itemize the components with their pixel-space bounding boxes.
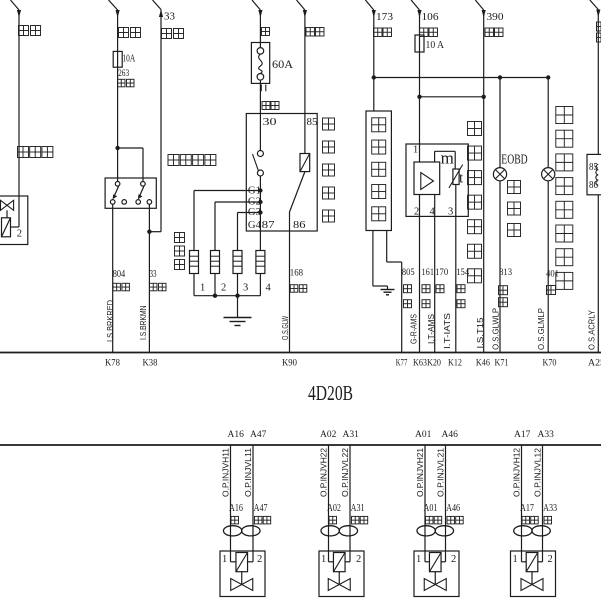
wire to MIL lamp — [547, 78, 549, 168]
svg-text:K38: K38 — [143, 359, 158, 369]
svg-text:A33: A33 — [543, 503, 557, 514]
svg-text:m: m — [441, 149, 454, 168]
svg-text:10A: 10A — [122, 54, 135, 65]
injector 2 solenoid — [333, 553, 345, 572]
label 红蓝 — [119, 28, 141, 38]
svg-text:170: 170 — [435, 268, 448, 278]
injector 1 solenoid — [236, 553, 248, 572]
valve solenoid actuator — [2, 218, 11, 237]
label 106 — [422, 11, 440, 23]
wire 黑黄 to relay coil 85 — [297, 0, 308, 154]
wire 390 绿黄 to K46 — [475, 0, 486, 353]
svg-text:K77: K77 — [396, 359, 408, 369]
labels 85 86 — [589, 162, 598, 191]
svg-text:K90: K90 — [282, 359, 297, 369]
label EOBD — [501, 153, 527, 168]
wire switch to G-junctions and 87 — [259, 176, 261, 251]
sensor pin labels 2 4 3 — [414, 207, 453, 218]
ground for separator — [381, 286, 395, 295]
wire 173 黑黄 — [365, 0, 376, 111]
clipped wire label — [597, 22, 601, 42]
pin label A33 with colour — [543, 503, 557, 524]
twisted pair symbol — [514, 526, 551, 536]
svg-text:A25: A25 — [588, 359, 601, 369]
svg-text:A47: A47 — [250, 430, 267, 440]
twisted pair symbol — [223, 526, 260, 536]
svg-text:2: 2 — [356, 554, 361, 565]
svg-text:G-R-AMS: G-R-AMS — [410, 314, 419, 344]
relay switch contacts 30-87 — [257, 151, 263, 177]
injector 2 box — [319, 551, 364, 597]
svg-text:A01: A01 — [415, 430, 432, 440]
ground for glow plugs — [224, 296, 252, 326]
svg-text:87: 87 — [262, 219, 276, 231]
label 蓝白 — [420, 28, 438, 37]
svg-text:3: 3 — [448, 207, 453, 218]
svg-text:804: 804 — [113, 268, 126, 280]
node G3 branch to glow plug 3 — [238, 210, 263, 250]
lamp supply bus — [372, 75, 551, 79]
pin label A17 with colour — [520, 503, 538, 524]
label 168 红蓝 — [290, 268, 307, 292]
wire to EOBD lamp — [499, 78, 501, 168]
label 10A — [122, 54, 135, 65]
ECU connector rail — [0, 352, 601, 354]
injector 1 wire low side A47 — [248, 445, 253, 562]
label 33 — [164, 11, 176, 23]
label 10 A — [426, 39, 445, 51]
svg-text:2: 2 — [17, 229, 22, 240]
label 170 红 — [435, 268, 448, 293]
injector 4 box — [511, 551, 556, 597]
svg-text:K70: K70 — [543, 359, 557, 369]
pin label A47 with colour — [254, 503, 271, 524]
brake switch 制动开关 box — [105, 178, 156, 208]
injector 4 wire low side A33 — [538, 445, 543, 562]
wire fuse to brake switch — [117, 67, 119, 181]
signal label O.P.INJVH22 — [320, 447, 329, 497]
label 红 — [262, 28, 270, 36]
injector 3 pin labels 1 2 — [416, 554, 456, 565]
svg-text:O.P.INJVL11: O.P.INJVL11 — [244, 447, 253, 497]
svg-text:390: 390 — [487, 11, 505, 23]
pin label 2 — [17, 229, 22, 240]
pin label A46 with colour — [446, 503, 463, 524]
air mass sensor 空气质量传感器 box — [406, 144, 468, 216]
svg-text:K46: K46 — [476, 359, 490, 369]
svg-text:106: 106 — [422, 11, 440, 23]
injector 4 valve — [521, 572, 543, 591]
svg-text:A31: A31 — [343, 430, 360, 440]
svg-text:33: 33 — [164, 11, 176, 23]
svg-text:154: 154 — [456, 268, 469, 278]
svg-text:A33: A33 — [538, 430, 555, 440]
svg-text:2: 2 — [221, 283, 226, 294]
brake switch blade 1 — [113, 186, 119, 199]
relay coil 85-86 — [300, 154, 310, 172]
svg-text:O.P.INJVL22: O.P.INJVL22 — [341, 447, 350, 497]
svg-text:O.P.INJVL12: O.P.INJVL12 — [534, 447, 543, 497]
svg-text:1: 1 — [513, 554, 518, 565]
svg-text:K20: K20 — [427, 359, 441, 369]
svg-text:805: 805 — [402, 268, 415, 278]
svg-text:2: 2 — [414, 207, 419, 218]
injector 1 valve — [231, 572, 253, 591]
sensor internal link — [435, 151, 456, 169]
sensor wire pin 3 to K12 — [455, 185, 457, 353]
connector pin labels A16..A33 — [228, 430, 555, 440]
svg-text:A31: A31 — [351, 503, 365, 514]
svg-text:K63: K63 — [413, 359, 427, 369]
injector 4 wire high side A17 — [522, 445, 527, 562]
sensor hot-film element m — [441, 149, 454, 168]
injector 1 box — [220, 551, 265, 597]
svg-text:O.S.GLW: O.S.GLW — [281, 316, 290, 340]
svg-text:O.P.INJVH21: O.P.INJVH21 — [416, 447, 425, 497]
svg-text:A16: A16 — [228, 430, 245, 440]
signal label I.T-AMS — [427, 314, 436, 344]
svg-text:1: 1 — [416, 554, 421, 565]
signal label I.T-IATS — [443, 313, 452, 349]
svg-text:263: 263 — [118, 68, 130, 78]
svg-text:K78: K78 — [105, 359, 120, 369]
svg-text:A17: A17 — [514, 430, 531, 440]
separator signal wire to K77 — [387, 231, 402, 353]
junction to second brake-switch contact — [115, 146, 143, 182]
brake switch contacts — [110, 182, 151, 205]
glow plug 2 — [211, 251, 220, 296]
signal label O.S.ACRLY — [588, 309, 597, 350]
label 87 — [262, 219, 276, 231]
sensor pin label 1 — [413, 145, 418, 156]
label 红黑 — [162, 29, 184, 39]
svg-text:2: 2 — [257, 554, 262, 565]
sensor wire pin 2 to K63 — [419, 195, 421, 353]
svg-text:60A: 60A — [272, 57, 293, 71]
svg-text:O.S.ACRLY: O.S.ACRLY — [588, 309, 597, 350]
sensor wire pin 4 to K20 — [434, 195, 436, 353]
wire at right edge — [590, 0, 601, 154]
svg-text:1: 1 — [200, 283, 205, 294]
wire coil to terminal 86 and K90 — [290, 172, 305, 353]
signal label I.S.BRKMN — [139, 305, 148, 340]
signal label O.P.INJVL11 — [244, 447, 253, 497]
svg-text:1: 1 — [222, 554, 227, 565]
label 33 红黑 — [150, 268, 167, 291]
svg-text:4: 4 — [266, 283, 272, 294]
A/C relay coil box 85 86 — [587, 154, 601, 194]
node G1 branch to glow plug 1 — [194, 188, 263, 250]
fuse 10A 263 — [113, 51, 122, 67]
injector 3 wire high side A01 — [425, 445, 429, 562]
svg-text:A46: A46 — [446, 503, 460, 514]
node G2 branch to glow plug 2 — [215, 200, 263, 251]
svg-text:O.S.GLMLP: O.S.GLMLP — [537, 308, 546, 350]
label 黑红 — [262, 102, 279, 110]
signal label O.S.GLW — [281, 316, 290, 340]
wire fuse to sensor pin 1 — [419, 52, 421, 162]
svg-text:K12: K12 — [448, 359, 462, 369]
pin label A31 with colour — [351, 503, 368, 524]
label 154 绿红 — [456, 268, 469, 308]
label 805 棕白 — [402, 268, 415, 308]
injector 2 valve — [328, 572, 350, 591]
sensor temperature resistor t — [449, 165, 464, 189]
svg-text:A46: A46 — [442, 430, 459, 440]
pin marks 11 — [261, 85, 266, 92]
connector pin labels K78..A25 — [105, 359, 601, 369]
fuel metering valve 油量阀 box — [0, 196, 28, 245]
svg-text:168: 168 — [290, 268, 304, 278]
svg-text:O.P.INJVL21: O.P.INJVL21 — [437, 447, 446, 497]
injector 4 solenoid — [526, 553, 538, 572]
svg-text:86: 86 — [293, 219, 306, 231]
svg-text:33: 33 — [150, 268, 157, 280]
label 401 蓝 — [546, 270, 559, 295]
svg-text:173: 173 — [376, 11, 394, 23]
injector 3 wire low side A46 — [441, 445, 445, 562]
signal label O.P.INJVH21 — [416, 447, 425, 497]
relay coil bumps — [596, 165, 598, 186]
label 60A — [272, 57, 293, 71]
label 油水分离器 — [372, 118, 386, 221]
label 预热继电器 — [323, 118, 335, 222]
signal label O.S.GLWLP — [491, 308, 500, 350]
label 指示灯 — [508, 181, 521, 237]
label 绿黄 — [485, 28, 503, 37]
glow plug numbers 1 2 3 4 — [200, 283, 272, 294]
svg-text:O.P.INJVH22: O.P.INJVH22 — [320, 447, 329, 497]
svg-text:K71: K71 — [495, 359, 509, 369]
svg-text:30: 30 — [263, 116, 278, 128]
svg-text:O.P.INJVH11: O.P.INJVH11 — [222, 447, 231, 497]
pin label A16 with colour — [229, 503, 243, 524]
svg-text:3: 3 — [243, 283, 248, 294]
svg-text:2: 2 — [548, 554, 553, 565]
relay switch blade — [253, 154, 259, 171]
label 制动开关 — [168, 155, 216, 166]
wire into valve pin 2 — [11, 196, 20, 227]
signal label O.S.GLMLP — [537, 308, 546, 350]
preheat relay 预热继电器 box — [246, 114, 317, 232]
svg-text:401: 401 — [546, 270, 559, 280]
ECU connector rail 2 — [0, 444, 601, 446]
label 空气质量传感器 — [468, 122, 482, 283]
svg-text:I.S.BRKMN: I.S.BRKMN — [139, 305, 148, 340]
svg-text:O.P.INJVH12: O.P.INJVH12 — [513, 447, 522, 497]
glow plug 4 — [256, 251, 265, 296]
svg-text:A17: A17 — [520, 503, 534, 514]
title 4D20B — [308, 381, 353, 405]
injector 2 pin labels 1 2 — [321, 554, 361, 565]
svg-text:10 A: 10 A — [426, 39, 445, 51]
svg-text:A16: A16 — [229, 503, 243, 514]
fusible link 60A — [251, 43, 269, 84]
label 85 — [307, 116, 319, 128]
wire MIL lamp to K70 — [547, 181, 549, 353]
EOBD indicator lamp — [493, 168, 506, 181]
label 813 紫黑 — [499, 268, 513, 307]
glow plug 1 — [190, 251, 199, 296]
wire relay to A25 — [597, 195, 599, 353]
wire EOBD lamp to K71 — [499, 181, 501, 353]
svg-text:A02: A02 — [327, 503, 341, 514]
svg-text:4D20B: 4D20B — [308, 381, 353, 405]
wire 106 蓝白 with fuse 10A — [411, 0, 422, 52]
sensor supply bus to 390 wire — [417, 95, 486, 99]
twisted pair symbol — [417, 526, 454, 536]
svg-text:1: 1 — [413, 145, 418, 156]
label 390 — [487, 11, 505, 23]
valve butterfly symbol — [1, 200, 14, 218]
twisted pair symbol — [321, 526, 358, 536]
fuse 10 A — [415, 35, 424, 52]
svg-text:G3: G3 — [248, 206, 261, 218]
engine malfunction indicator lamp — [542, 168, 555, 181]
glow plug ground bus — [194, 294, 260, 298]
svg-text:t: t — [459, 171, 464, 187]
label 173 — [376, 11, 394, 23]
svg-text:G4: G4 — [248, 219, 261, 231]
label 油量阀 — [18, 147, 53, 158]
signal label O.P.INJVH12 — [513, 447, 522, 497]
svg-text:813: 813 — [499, 268, 512, 278]
injector 1 wire high side A16 — [231, 445, 236, 562]
sensor amplifier — [414, 162, 440, 195]
wire 黑黄 to fuel metering valve — [11, 0, 22, 196]
injector 2 wire high side A02 — [329, 445, 334, 562]
signal label I.S.BRKRED — [106, 300, 115, 342]
label 红白 — [118, 79, 135, 87]
signal label O.P.INJVH11 — [222, 447, 231, 497]
svg-text:85: 85 — [307, 116, 319, 128]
label 161 红黄 — [422, 268, 435, 308]
label 预热塞 — [175, 233, 185, 270]
svg-text:A47: A47 — [254, 503, 268, 514]
signal label O.P.INJVL21 — [437, 447, 446, 497]
wire to relay terminal 30 — [259, 80, 261, 150]
label 263 — [118, 68, 130, 78]
injector 4 pin labels 1 2 — [513, 554, 553, 565]
injector 3 valve — [424, 572, 446, 591]
svg-text:I.S.T15: I.S.T15 — [476, 317, 485, 349]
label 30 — [263, 116, 278, 128]
svg-text:I.T-IATS: I.T-IATS — [443, 313, 452, 349]
label 86 — [293, 219, 306, 231]
svg-text:I.S.BRKRED: I.S.BRKRED — [106, 300, 115, 342]
brake switch blade 2 — [138, 186, 144, 199]
svg-text:2: 2 — [451, 554, 456, 565]
injector 3 box — [414, 551, 459, 597]
signal label I.S.T15 — [476, 317, 485, 349]
svg-text:A01: A01 — [424, 503, 438, 514]
labels G1 G2 G3 G4 — [248, 185, 261, 232]
signal label O.P.INJVL22 — [341, 447, 350, 497]
glow plug 3 — [233, 251, 242, 296]
wire brake switch to K38 with tap to 33 — [147, 204, 161, 352]
svg-text:85: 85 — [589, 162, 598, 173]
wire 红 battery feed — [252, 0, 263, 48]
injector 1 pin labels 1 2 — [222, 554, 262, 565]
svg-text:O.S.GLWLP: O.S.GLWLP — [491, 308, 500, 350]
oil-water separator 油水分离器 box — [366, 111, 391, 231]
wire brake switch to K78 — [112, 204, 114, 352]
label 804 棕红 — [113, 268, 130, 291]
separator wire to ground — [373, 231, 388, 287]
label 黑黄 — [306, 28, 324, 37]
svg-text:161: 161 — [422, 268, 435, 278]
pin label A02 with colour — [327, 503, 341, 524]
signal label O.P.INJVL12 — [534, 447, 543, 497]
svg-text:A02: A02 — [320, 430, 337, 440]
pin label A01 with colour — [424, 503, 442, 524]
wire 33 红黑 going up (brake output) — [153, 0, 164, 232]
svg-text:EOBD: EOBD — [501, 153, 527, 168]
wire 红蓝 feeding brake switch — [109, 0, 120, 67]
signal label G-R-AMS — [410, 314, 419, 344]
label 黑黄 — [19, 26, 41, 36]
injector 2 wire low side A31 — [345, 445, 350, 562]
label 黑黄 — [374, 28, 392, 37]
svg-text:1: 1 — [321, 554, 326, 565]
label 发动机故障指示灯 — [556, 107, 573, 290]
injector 3 solenoid — [429, 553, 441, 572]
